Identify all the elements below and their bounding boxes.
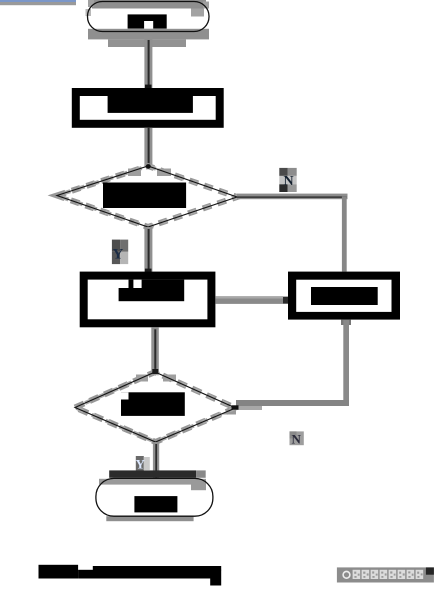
arrow into D2 right — [232, 405, 239, 409]
arrow band above T2 — [109, 470, 206, 477]
process box P3 (right) — [288, 272, 400, 320]
terminator T1 (start, stadium) — [86, 0, 210, 47]
process box P2 — [80, 272, 216, 328]
wire D1 -> P2 (Y branch) — [144, 227, 152, 273]
process box P1 — [72, 88, 224, 128]
wire P1 -> D1 — [144, 128, 152, 167]
svg-text:Y: Y — [113, 247, 124, 263]
P1 text blob — [108, 96, 193, 113]
watermark bar (bottom right) — [337, 567, 434, 582]
D2 text blob — [121, 392, 185, 416]
T1 text blob — [128, 14, 167, 28]
arrow into D2 top — [152, 369, 158, 374]
wire D2 -> T2 (Y branch) — [153, 442, 159, 478]
D1 text blob — [103, 183, 186, 209]
caption text blob (bottom left) — [39, 565, 222, 586]
decision diamond D1 — [57, 166, 237, 227]
terminator T2 (end, stadium) — [96, 478, 213, 521]
@ glyph — [343, 571, 350, 578]
label N (node N2) — [290, 431, 304, 446]
arrow into D1 top — [146, 164, 151, 169]
wire down to P3 top — [342, 196, 347, 271]
wire P2 -> D2 — [151, 327, 159, 372]
wire P3 bottom -> corner — [341, 320, 351, 404]
wire corner -> D2 right — [222, 400, 349, 415]
simulated CJK watermark glyphs — [353, 570, 424, 579]
T2 text blob — [134, 496, 177, 512]
label Y (node Y1) — [112, 240, 128, 265]
P3 text blob — [311, 287, 378, 305]
top-left page bar (blue over gray) — [0, 0, 76, 2]
svg-text:N: N — [292, 432, 302, 447]
label Y (node Y2) — [136, 456, 150, 472]
label N (node N1) — [279, 168, 296, 192]
P2 text blob — [119, 280, 185, 302]
svg-text:N: N — [284, 174, 294, 189]
svg-text:Y: Y — [136, 457, 146, 472]
decision diamond D2 — [75, 372, 236, 442]
wire P2 -> P3 — [215, 296, 289, 304]
wire T1 -> P1 — [144, 36, 152, 88]
wire D1 -> right (N branch) — [237, 194, 348, 200]
